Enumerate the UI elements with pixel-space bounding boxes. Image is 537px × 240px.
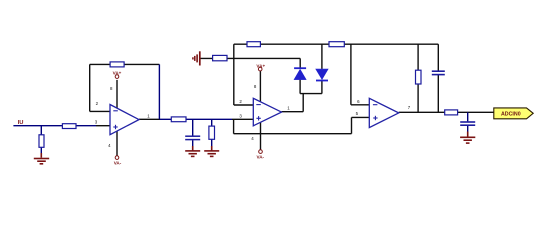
svg-text:1: 1 (287, 106, 290, 111)
svg-text:4: 4 (251, 136, 254, 141)
svg-text:8: 8 (254, 84, 257, 89)
svg-text:4: 4 (108, 143, 111, 148)
svg-text:6: 6 (357, 99, 360, 104)
svg-text:VA+: VA+ (256, 63, 265, 68)
svg-text:VA+: VA+ (113, 71, 122, 76)
svg-text:VA-: VA- (114, 161, 122, 166)
svg-text:IU: IU (18, 120, 24, 126)
svg-text:VA-: VA- (257, 155, 265, 160)
svg-text:1: 1 (147, 114, 150, 119)
svg-text:8: 8 (110, 86, 113, 91)
svg-text:5: 5 (356, 111, 359, 116)
svg-text:2: 2 (239, 99, 242, 104)
svg-text:3: 3 (95, 119, 98, 124)
svg-text:ADCIN0: ADCIN0 (501, 111, 521, 117)
svg-text:7: 7 (408, 105, 411, 110)
svg-text:2: 2 (96, 101, 99, 106)
svg-text:3: 3 (239, 113, 242, 118)
